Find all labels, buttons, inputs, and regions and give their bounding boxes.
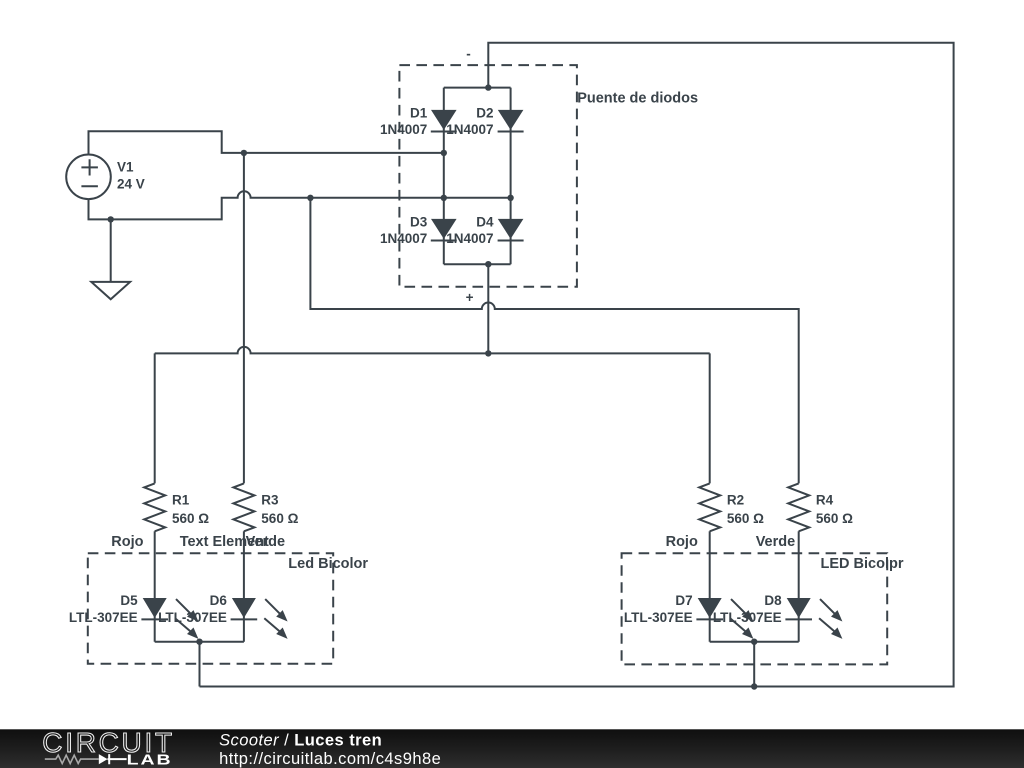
node LED group 1 common	[196, 639, 202, 645]
svg-text:D4: D4	[476, 214, 494, 229]
svg-text:Led Bicolor: Led Bicolor	[288, 556, 368, 572]
svg-text:D6: D6	[210, 593, 228, 608]
wire R3 column from V1+ net	[243, 153, 245, 484]
svg-text:LTL-307EE: LTL-307EE	[713, 610, 782, 625]
wire R1 bottom lead to D5	[154, 531, 156, 641]
LED D5	[141, 598, 198, 639]
svg-text:+: +	[466, 290, 474, 305]
LED D7	[696, 598, 753, 639]
resistor R1	[144, 483, 165, 531]
svg-text:LTL-307EE: LTL-307EE	[69, 610, 138, 625]
wire V1 plus to bridge left column (net at y=152.9)	[89, 131, 444, 154]
wire R2 top lead	[709, 353, 711, 483]
svg-text:-: -	[466, 47, 471, 62]
node bridge bottom center	[485, 261, 491, 267]
svg-text:R4: R4	[816, 493, 834, 508]
svg-text:560 Ω: 560 Ω	[261, 511, 298, 526]
svg-text:LTL-307EE: LTL-307EE	[624, 610, 693, 625]
node bottom rail junction	[751, 683, 757, 689]
resistor R2	[699, 483, 720, 531]
wire bridge left column	[443, 88, 445, 265]
wire bridge minus output top loop to LED commons	[200, 43, 954, 687]
wire LED group 2 common	[710, 642, 799, 687]
svg-text:Scooter / Luces tren: Scooter / Luces tren	[219, 731, 382, 749]
diode D1	[431, 110, 457, 132]
wire R1 top lead	[154, 353, 156, 483]
svg-text:560 Ω: 560 Ω	[816, 511, 853, 526]
svg-text:Puente de diodos: Puente de diodos	[577, 90, 698, 106]
svg-text:560 Ω: 560 Ω	[727, 511, 764, 526]
wire R2 bottom lead to D7	[709, 531, 711, 641]
svg-text:R3: R3	[261, 493, 279, 508]
node AC rail left column	[441, 195, 447, 201]
resistor R4	[788, 483, 809, 531]
wire bridge top rail	[444, 87, 511, 89]
dashed box: Led Bicolor	[88, 553, 333, 664]
wire plus rail y=353.4 with hop over R3 column	[155, 347, 710, 353]
voltage source V1	[66, 155, 111, 200]
svg-text:24 V: 24 V	[117, 177, 145, 192]
svg-text:D7: D7	[675, 593, 692, 608]
node AC2 tap	[307, 195, 313, 201]
svg-text:D5: D5	[120, 593, 138, 608]
svg-text:V1: V1	[117, 160, 134, 175]
svg-text:D3: D3	[410, 214, 428, 229]
ground	[91, 219, 130, 299]
node bridge top center	[485, 84, 491, 90]
wire bridge bottom rail	[444, 263, 511, 265]
svg-text:LAB: LAB	[127, 751, 173, 768]
wire bridge right column	[510, 88, 512, 265]
svg-text:1N4007: 1N4007	[380, 231, 427, 246]
svg-text:LED Bicolpr: LED Bicolpr	[821, 556, 904, 572]
wire R4 bottom lead to D8	[798, 531, 800, 641]
node plus rail center	[485, 350, 491, 356]
LED D8	[785, 598, 842, 639]
svg-text:1N4007: 1N4007	[446, 122, 493, 137]
wire V1 minus loop to AC rail (y=197.8) with hop over R3 column	[89, 191, 511, 219]
svg-text:R2: R2	[727, 493, 744, 508]
svg-text:D2: D2	[476, 105, 493, 120]
resistor R3	[233, 483, 254, 531]
svg-text:R1: R1	[172, 493, 190, 508]
svg-text:http://circuitlab.com/c4s9h8e: http://circuitlab.com/c4s9h8e	[219, 750, 441, 768]
node left column at V1+	[241, 150, 247, 156]
svg-text:Rojo: Rojo	[111, 534, 143, 550]
diode D2	[498, 110, 524, 132]
svg-text:D1: D1	[410, 105, 428, 120]
svg-text:LTL-307EE: LTL-307EE	[158, 610, 227, 625]
node left column AC rail	[441, 150, 447, 156]
diode D4	[498, 219, 524, 241]
wire AC2 branch x=310.4 down and right to R4 with hop over plus output	[310, 198, 798, 484]
diode D3	[431, 219, 457, 241]
dashed box: Puente de diodos	[399, 65, 577, 287]
node: ground tap junction	[108, 216, 114, 222]
svg-text:Verde: Verde	[756, 534, 796, 550]
dashed box: LED Bicolpr	[622, 553, 888, 664]
LED D6	[231, 598, 288, 639]
logo resistor-diode squiggle	[45, 755, 99, 763]
wire LED group 1 common	[155, 642, 244, 687]
svg-text:1N4007: 1N4007	[380, 122, 427, 137]
wire bridge plus output down to plus rail	[487, 264, 489, 353]
svg-text:1N4007: 1N4007	[446, 231, 493, 246]
node AC rail right column	[507, 195, 513, 201]
svg-text:560 Ω: 560 Ω	[172, 511, 209, 526]
svg-text:Rojo: Rojo	[666, 534, 698, 550]
node LED group 2 common	[751, 639, 757, 645]
logo diode symbol	[99, 754, 108, 764]
svg-text:Verde: Verde	[246, 534, 286, 550]
svg-text:D8: D8	[764, 593, 782, 608]
wire R3 bottom lead to D6	[243, 531, 245, 641]
